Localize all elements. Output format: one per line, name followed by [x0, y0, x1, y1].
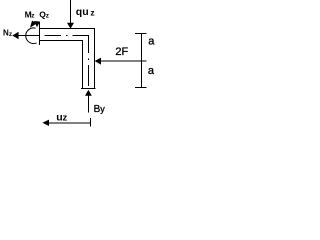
svg-text:y: y [100, 104, 105, 114]
svg-text:a: a [148, 35, 155, 47]
svg-text:qu: qu [76, 6, 89, 18]
svg-text:a: a [148, 65, 155, 77]
svg-text:z: z [63, 113, 68, 124]
svg-text:2F: 2F [115, 46, 128, 58]
svg-text:z: z [90, 8, 94, 18]
